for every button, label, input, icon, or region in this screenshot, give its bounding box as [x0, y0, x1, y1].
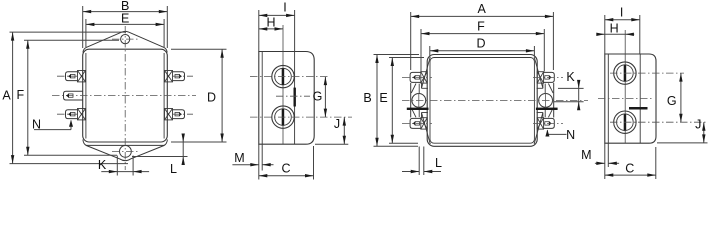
svg-text:N: N [566, 128, 575, 142]
svg-text:G: G [313, 89, 323, 103]
svg-text:I: I [283, 1, 286, 15]
svg-text:E: E [121, 12, 129, 26]
svg-text:K: K [566, 70, 575, 84]
svg-text:I: I [620, 5, 623, 19]
svg-text:D: D [207, 90, 216, 104]
svg-text:K: K [98, 158, 107, 172]
svg-text:G: G [667, 94, 677, 108]
svg-text:H: H [266, 16, 275, 30]
svg-text:B: B [363, 91, 371, 105]
svg-text:H: H [610, 21, 619, 35]
svg-text:F: F [477, 19, 485, 33]
svg-text:J: J [695, 117, 701, 131]
svg-text:N: N [32, 117, 41, 131]
svg-text:F: F [16, 88, 24, 102]
svg-text:C: C [625, 161, 634, 175]
svg-text:A: A [478, 2, 487, 16]
svg-text:E: E [379, 91, 387, 105]
svg-text:A: A [2, 88, 11, 102]
svg-text:L: L [170, 162, 177, 176]
svg-text:D: D [476, 37, 485, 51]
svg-text:M: M [581, 148, 591, 162]
svg-text:L: L [435, 156, 442, 170]
svg-text:M: M [234, 151, 244, 165]
svg-text:J: J [334, 117, 340, 131]
svg-text:C: C [281, 162, 290, 176]
